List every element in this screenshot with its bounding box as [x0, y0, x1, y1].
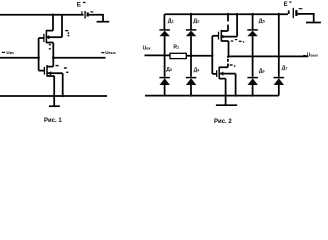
- transistor T' source lead: [219, 78, 225, 80]
- ground bar Fig1 bottom: [49, 105, 60, 107]
- svg-text:Uвых: Uвых: [105, 50, 116, 55]
- node: dot output/B5: [251, 55, 254, 58]
- transistor T' substrate arrow (points to channel): [219, 72, 223, 76]
- diode D7 cathode bar: [274, 77, 285, 79]
- svg-text:E: E: [77, 2, 81, 9]
- node: junction dot output line: [52, 56, 55, 59]
- label T': [230, 64, 236, 67]
- diode D5 cathode bar: [247, 29, 257, 31]
- transistor T1 drain lead: [47, 66, 53, 68]
- wire: gate riser Fig2: [211, 36, 213, 74]
- wire: output line Fig1 (Uвых): [53, 57, 105, 59]
- transistor T2 gate lead: [39, 37, 44, 39]
- resistor R1 body: [170, 53, 186, 58]
- diode D4 cathode bar: [186, 77, 197, 79]
- diode D6 cathode bar: [247, 77, 258, 79]
- label R1: [173, 45, 179, 51]
- wire: T2 drain to supply: [52, 15, 54, 31]
- wire: T2' source down to output node: [228, 41, 230, 56]
- battery E2 plus tick: [288, 10, 290, 14]
- artifact dashes below T2: [49, 44, 51, 50]
- node: rail dots Fig2: [190, 94, 192, 96]
- label T2: [65, 30, 69, 36]
- battery E1 minus sign: [90, 11, 93, 13]
- battery E2 minus sign: [299, 8, 303, 10]
- ground bar Fig2 bottom: [216, 104, 237, 106]
- wire: T1 source down to ground rail: [53, 76, 55, 96]
- transistor T2 source lead: [46, 42, 53, 44]
- node: junction dot supply/T2 drain: [52, 14, 55, 17]
- node: junction dot T1 source / rail: [53, 95, 56, 98]
- wire: T2' drain to supply (with scan gap): [227, 14, 229, 31]
- transistor T2' (upper) gate lead: [212, 35, 218, 37]
- label T2': [231, 39, 244, 43]
- battery E1 short electrode: [87, 12, 89, 16]
- diode D1 triangle: [160, 31, 170, 37]
- battery E1 plus tick: [81, 11, 83, 14]
- transistor T1 gate bar: [43, 67, 45, 75]
- transistor T2' substrate lead: [221, 36, 237, 38]
- label Uвх Fig1: [2, 50, 14, 55]
- transistor T2 channel: [45, 30, 47, 43]
- wire: D3 to ground rail: [164, 85, 166, 96]
- wire: branch B7 (supply to D7): [278, 14, 280, 76]
- wire: D6 to ground rail: [252, 85, 254, 96]
- wire: D2 to D4: [190, 36, 192, 76]
- wire: output node down to T1 drain: [52, 58, 54, 67]
- wire: branch B5 top: [252, 14, 254, 29]
- wire: T2' substrate to supply: [236, 14, 238, 36]
- node: dot output/B7: [278, 55, 281, 58]
- node: dot B2/input lead: [190, 55, 193, 58]
- wire: T' source down to ground rail: [225, 79, 227, 96]
- wire: output node down to lower T drain (dashed scan): [227, 56, 229, 67]
- label Д1: [168, 18, 175, 24]
- transistor T' gate bar: [216, 70, 218, 77]
- wire: T2 source down to output node: [52, 43, 54, 58]
- wire: D5 to D6: [252, 36, 254, 76]
- wire: T2 substrate to supply: [61, 15, 63, 37]
- diode D3 triangle: [160, 78, 170, 85]
- battery E2 short electrode: [295, 10, 297, 16]
- wire: battery E1 to chassis ground: [89, 15, 103, 21]
- svg-text:E: E: [284, 2, 288, 8]
- transistor T2' source lead: [221, 40, 228, 42]
- wire: D7 to ground rail corner: [278, 85, 280, 96]
- ground bar (top right of Fig1): [97, 21, 110, 23]
- wire: rail to ground symbol Fig1: [53, 96, 55, 106]
- diode D5 triangle: [247, 31, 257, 37]
- label Д7: [282, 66, 288, 72]
- label Д4: [194, 68, 201, 74]
- transistor T2 substrate arrow (p-type, points right): [48, 35, 52, 39]
- caption Рис. 2: [214, 119, 232, 125]
- node: junction dot input line / gate riser: [37, 56, 40, 59]
- wire: output line Fig2: [228, 55, 308, 57]
- node: dot output start: [227, 55, 230, 58]
- transistor T1 gate lead: [39, 70, 45, 72]
- svg-text:Рис. 2: Рис. 2: [214, 119, 232, 125]
- wire: T1 substrate down to ground rail: [62, 73, 64, 96]
- diode D4 triangle: [186, 78, 196, 85]
- diode D3 cathode bar: [159, 77, 170, 79]
- wire: branch B1 top (rail corner to D1): [163, 14, 165, 29]
- transistor T' gate lead: [212, 73, 216, 75]
- node: junction dot T1 substrate / rail: [62, 95, 64, 97]
- node: supply dots Fig2: [190, 13, 193, 16]
- wire: +supply rail Fig1: [0, 14, 84, 16]
- label T1: [56, 65, 69, 73]
- ground bar (top right of Fig2): [306, 22, 321, 24]
- diode D2 cathode bar: [186, 29, 197, 31]
- label E1: [77, 2, 86, 9]
- transistor T' channel: [218, 67, 220, 79]
- label E2: [284, 1, 292, 8]
- transistor T' substrate lead: [219, 73, 235, 75]
- transistor T2' channel: [220, 30, 222, 42]
- node: dot riser/input lead: [211, 55, 213, 57]
- label Д2: [193, 18, 200, 24]
- wire: ground rail Fig2: [145, 95, 279, 97]
- wire: +supply rail Fig2: [164, 13, 288, 15]
- diode D7 triangle: [274, 78, 284, 85]
- battery E2 long electrode: [292, 8, 294, 18]
- svg-text:Uвх: Uвх: [6, 50, 14, 55]
- wire: branch B2 top: [190, 14, 192, 29]
- diode D6 triangle: [248, 78, 258, 85]
- node: dot input/B1: [163, 54, 166, 57]
- wire: R1 to gate riser Fig2: [186, 55, 212, 57]
- transistor T' (lower) drain lead: [219, 66, 228, 68]
- transistor T1 substrate arrow (n-type, points to channel): [47, 71, 51, 75]
- wire: D4 to ground rail: [190, 85, 192, 96]
- transistor T1 substrate lead: [47, 72, 63, 74]
- transistor T2' drain lead: [221, 30, 228, 32]
- wire: input lead Fig2: [145, 54, 171, 56]
- label Д6: [259, 68, 265, 74]
- wire: T' substrate down to ground rail: [235, 74, 237, 96]
- transistor T2' substrate arrow (points right): [222, 35, 226, 39]
- wire: rail to ground symbol Fig2: [225, 96, 227, 105]
- wire: gate riser Fig1: [38, 38, 40, 71]
- transistor T2 gate bar: [43, 34, 45, 42]
- diode D1 cathode bar: [159, 29, 170, 31]
- diode D2 triangle: [186, 31, 196, 37]
- transistor T2' gate bar: [218, 32, 220, 40]
- wire: battery E2 to chassis ground: [298, 14, 314, 22]
- wire: ground rail Fig1: [0, 95, 107, 97]
- caption Рис. 1: [44, 118, 62, 124]
- transistor T1 channel: [46, 65, 48, 77]
- transistor T2 drain lead: [46, 30, 53, 32]
- transistor T2 substrate lead: [46, 36, 62, 38]
- label Д5: [259, 19, 266, 25]
- label Д3: [166, 67, 172, 73]
- label Uвых Fig1: [101, 50, 116, 55]
- transistor T1 source lead: [47, 75, 54, 77]
- label Uвх Fig2: [143, 46, 152, 52]
- battery E1 long electrode: [84, 11, 86, 19]
- svg-text:Рис. 1: Рис. 1: [44, 118, 62, 124]
- wire: input line Fig1 (Uвх): [0, 57, 39, 59]
- label Uвых Fig2: [303, 53, 319, 59]
- wire: D1 to input node: [164, 36, 166, 76]
